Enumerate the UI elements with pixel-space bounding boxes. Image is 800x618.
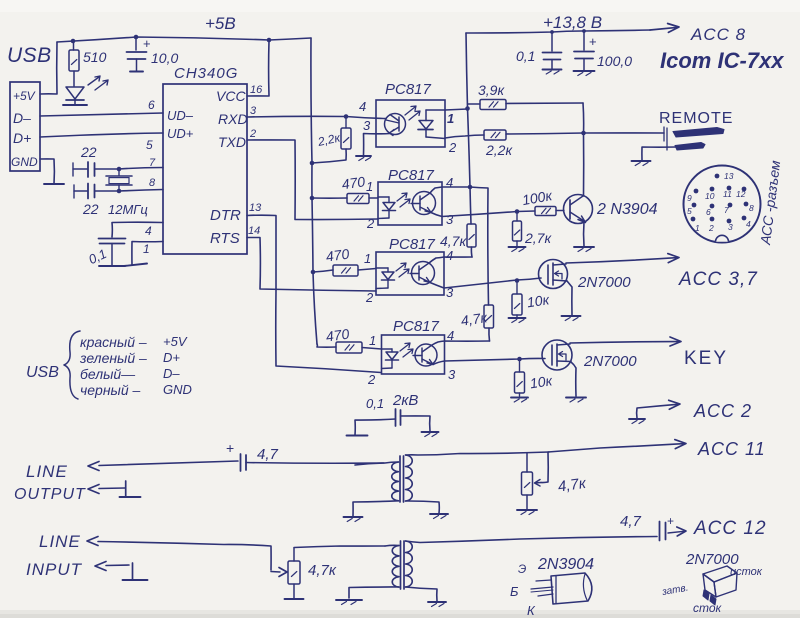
transformer T2 primary [392, 546, 399, 588]
svg-text:+13,8 В: +13,8 В [543, 13, 602, 32]
remote plug contacts [663, 127, 665, 141]
node base divider [515, 209, 520, 214]
svg-text:3: 3 [448, 367, 456, 382]
svg-text:UD–: UD– [167, 108, 194, 123]
MOSFET Q3 body [542, 340, 572, 370]
resistor 10k (U5) [519, 359, 521, 372]
node rail 470-3 [311, 270, 316, 275]
svg-text:исток: исток [730, 566, 763, 578]
svg-text:RTS: RTS [210, 230, 240, 247]
Q1 base bar [569, 200, 571, 219]
svg-text:белый—: белый— [80, 366, 136, 382]
svg-text:GND: GND [11, 155, 38, 169]
capacitor 4,7 ACC12 [659, 522, 661, 541]
U3 phototransistor [413, 192, 436, 215]
svg-text:3: 3 [446, 212, 454, 227]
node rail 470-2 [310, 196, 315, 201]
Q1 emitter stroke [570, 212, 586, 223]
node junction [134, 35, 139, 40]
svg-text:PC817: PC817 [385, 81, 432, 98]
svg-text:510: 510 [83, 49, 107, 65]
node crystal bottom [117, 189, 122, 194]
svg-text:3,9к: 3,9к [478, 82, 505, 98]
svg-text:сток: сток [693, 601, 723, 615]
wire 13V rail down [466, 33, 470, 187]
svg-text:0,1: 0,1 [366, 396, 384, 411]
svg-text:+5B: +5B [205, 14, 236, 33]
svg-text:черный –: черный – [80, 382, 141, 398]
node 13V r3,9k [465, 106, 470, 111]
ground T2 primary [336, 599, 362, 601]
ground for LED [63, 104, 87, 106]
ground T1 secondary [430, 513, 448, 515]
Q3 channel bar [556, 344, 558, 366]
svg-text:12: 12 [736, 189, 746, 199]
svg-text:11: 11 [723, 189, 732, 199]
2N3904 lead K [538, 594, 553, 596]
Q3 arrow [559, 352, 567, 361]
svg-text:зеленый –: зеленый – [79, 350, 147, 366]
resistor 4,7k (U4 pull) [470, 187, 471, 224]
svg-text:GND: GND [163, 382, 192, 397]
ground 10k (U4) [509, 317, 526, 319]
U3 pin3 wire [431, 212, 517, 217]
optocoupler U5 body [382, 335, 445, 374]
svg-text:1: 1 [447, 111, 454, 126]
U4 phototransistor [412, 262, 435, 285]
U2 LED [425, 110, 427, 121]
svg-text:4: 4 [746, 219, 751, 229]
wire +5V rail vertical [311, 38, 317, 344]
svg-text:INPUT: INPUT [26, 560, 83, 579]
svg-text:2,2к: 2,2к [485, 142, 513, 158]
wire down to remote node [582, 103, 585, 133]
resistor 100k [517, 210, 535, 213]
ground Q3 [566, 397, 586, 399]
capacitor 0,1 (13V) [551, 32, 553, 51]
wire ACC2 [637, 404, 679, 418]
wire D- to pin6 [40, 113, 163, 116]
capacitor 22p upper [72, 163, 74, 176]
ground remote [632, 160, 651, 162]
ground ACC2 [629, 418, 645, 420]
U4 pin3 wire [430, 278, 541, 288]
svg-text:4,7: 4,7 [257, 446, 279, 463]
transformer T1 secondary [406, 455, 413, 501]
svg-text:10: 10 [705, 191, 715, 201]
capacitor 0,1 2kV [395, 409, 397, 426]
svg-text:6: 6 [148, 98, 155, 112]
optocoupler U2 body [376, 100, 445, 147]
svg-text:3: 3 [363, 118, 371, 133]
wire cap to T1 [246, 462, 384, 465]
svg-text:+5V: +5V [13, 89, 36, 103]
resistor 470 (U5) [317, 344, 336, 347]
arrow ACC 3,7 [668, 254, 679, 263]
node 13,8 cap1 [550, 30, 554, 34]
ground 10k (U5) [511, 397, 528, 399]
Q3 source stroke [557, 360, 571, 363]
remote sleeve wire [642, 147, 676, 160]
svg-text:12МГц: 12МГц [108, 202, 148, 217]
svg-text:5: 5 [687, 206, 692, 216]
wire U2pin1 to rail [445, 109, 468, 110]
Q 2N7000 package [703, 566, 737, 582]
svg-text:ACC 3,7: ACC 3,7 [678, 269, 758, 290]
transformer T1 primary [392, 462, 399, 501]
remote plug tip [673, 128, 724, 138]
svg-text:1: 1 [695, 223, 700, 233]
svg-text:4: 4 [359, 99, 366, 114]
svg-text:1: 1 [366, 179, 373, 194]
svg-text:1: 1 [369, 333, 376, 348]
U5 phototransistor [415, 344, 437, 366]
LED arrows [88, 76, 100, 85]
U3 LED [378, 196, 389, 198]
USB connector J1 [10, 82, 40, 171]
Q2 drain wire [566, 258, 678, 263]
svg-text:D+: D+ [163, 350, 180, 365]
node 13V U3pin4 [468, 185, 473, 190]
svg-text:ACC 2: ACC 2 [693, 401, 752, 421]
svg-text:USB: USB [26, 364, 59, 381]
svg-text:13: 13 [249, 202, 262, 214]
legend brace [64, 331, 80, 399]
svg-text:10к: 10к [529, 372, 555, 391]
transistor Q1 body [564, 195, 593, 224]
svg-text:1: 1 [364, 251, 371, 266]
wire RXD [247, 116, 386, 118]
svg-text:TXD: TXD [218, 134, 246, 150]
node junction [71, 39, 76, 44]
2N3904 lead E [536, 580, 551, 581]
svg-text:16: 16 [250, 84, 263, 96]
svg-text:5: 5 [146, 138, 153, 152]
wire D+ to pin5 [40, 133, 163, 137]
svg-text:DTR: DTR [210, 207, 241, 224]
wire pin1 [132, 242, 163, 266]
U4 pin4 wire [429, 257, 472, 263]
arrow LINE in [87, 537, 98, 546]
wire pot to T2 [294, 546, 385, 548]
svg-text:10к: 10к [526, 291, 552, 310]
resistor 10k (U4) [516, 281, 518, 294]
resistor 2,7k [516, 212, 518, 222]
U2 pin2 wire and resistor 2,2k [445, 135, 484, 138]
svg-text:D–: D– [13, 110, 31, 126]
potentiometer 4,7k input [288, 561, 300, 584]
svg-text:6: 6 [706, 207, 711, 217]
wire to remote plug [584, 132, 665, 134]
wire GND [40, 159, 54, 184]
remote plug sleeve [675, 143, 705, 151]
svg-text:2,7к: 2,7к [524, 230, 552, 246]
transformer T2 secondary [406, 541, 413, 587]
svg-text:2N7000: 2N7000 [577, 274, 631, 291]
wire to pin7 [119, 168, 163, 170]
svg-text:2N7000: 2N7000 [583, 353, 637, 370]
resistor 3,9k [468, 103, 481, 105]
svg-text:PC817: PC817 [389, 236, 436, 253]
ground T2 secondary [428, 601, 446, 603]
ground Q1 [574, 246, 594, 248]
svg-text:8: 8 [149, 177, 156, 189]
arrow INPUT [95, 562, 106, 571]
svg-text:REMOTE: REMOTE [659, 110, 733, 127]
resistor 4,7k (U5 pull) [470, 187, 489, 305]
Q2 gate bar [547, 265, 549, 284]
potentiometer 4,7k [522, 472, 533, 495]
wire RTS [247, 238, 376, 292]
Q1 emitter wire [583, 222, 585, 246]
svg-text:3: 3 [728, 222, 733, 232]
svg-text:+: + [667, 514, 674, 528]
ground for USB GND [44, 183, 64, 185]
MOSFET Q2 body [539, 260, 568, 289]
capacitor 22p lower [73, 185, 75, 198]
svg-text:0,1: 0,1 [516, 48, 535, 64]
svg-text:RXD: RXD [218, 111, 248, 127]
svg-text:3: 3 [250, 105, 257, 117]
wire DTR [247, 215, 381, 372]
capacitor 4,7 out [240, 454, 242, 471]
ground cap 0,1 [543, 69, 562, 71]
node gate1 [515, 278, 520, 283]
Q2 drain stroke [553, 264, 566, 265]
capacitor 0,1 [99, 238, 126, 240]
svg-text:2: 2 [708, 223, 714, 233]
svg-text:10,0: 10,0 [151, 50, 178, 66]
svg-text:2кВ: 2кВ [392, 392, 418, 409]
arrow ACC2 [669, 400, 680, 409]
LED D1 [66, 87, 84, 99]
Q1 collector stroke [570, 196, 583, 205]
ground pot input [285, 598, 304, 600]
node rail RXD pullup [310, 161, 315, 166]
U5 pin4 wire [432, 341, 490, 345]
svg-text:D–: D– [163, 366, 180, 381]
Q3 drain wire [570, 342, 680, 343]
ground for 0,1 [99, 265, 125, 267]
svg-text:4,7: 4,7 [620, 513, 642, 530]
svg-text:+: + [226, 440, 234, 456]
Q3 gate bar [551, 345, 553, 365]
wire pot tap stub [526, 453, 528, 472]
arrow ACC11 [675, 440, 686, 449]
svg-text:2: 2 [366, 216, 375, 231]
svg-text:CH340G: CH340G [174, 65, 238, 82]
wire to pin8 [119, 190, 163, 192]
Q2 arrow [555, 271, 563, 279]
2N3904 lead B [531, 587, 553, 589]
svg-text:2N3904: 2N3904 [537, 556, 594, 573]
svg-text:+: + [589, 34, 597, 49]
svg-text:9: 9 [687, 193, 692, 203]
node 13,8 cap2 [582, 29, 586, 33]
svg-text:8: 8 [749, 203, 754, 213]
optocoupler U3 body [378, 182, 442, 225]
wire +13,8 bus [466, 30, 650, 33]
svg-text:470: 470 [325, 325, 351, 344]
arrow into pot in [271, 571, 280, 574]
transformer T2 core [400, 541, 402, 589]
jack sleeve out [125, 481, 127, 497]
arrow ACC12 [668, 531, 685, 533]
svg-text:470: 470 [325, 245, 351, 264]
svg-text:VCC: VCC [216, 88, 246, 104]
arrow OUTPUT [88, 485, 99, 494]
svg-text:Б: Б [510, 584, 519, 599]
svg-text:22: 22 [82, 201, 99, 217]
svg-text:2: 2 [367, 372, 376, 387]
svg-text:D+: D+ [13, 130, 31, 146]
resistor 470 (U3) [312, 197, 347, 199]
resistor 510 [73, 41, 75, 50]
svg-text:+: + [143, 36, 151, 51]
svg-text:22: 22 [80, 144, 97, 160]
ground 2kV right [422, 431, 439, 433]
U4 emission arrows [396, 263, 406, 271]
ground T1 primary [344, 516, 363, 518]
Q2 source stroke [553, 280, 567, 281]
node remote [581, 131, 586, 136]
svg-text:100,0: 100,0 [597, 53, 632, 69]
U5 LED [382, 348, 393, 350]
DIN connector pins 1-13 [715, 174, 720, 179]
svg-text:14: 14 [248, 225, 260, 237]
jack sleeve in [132, 563, 134, 580]
svg-text:4: 4 [446, 248, 453, 263]
svg-text:13: 13 [724, 171, 734, 181]
ground Q2 [562, 315, 581, 317]
node RXD pullup [344, 114, 349, 119]
svg-text:+5V: +5V [163, 334, 188, 349]
ground pot [517, 509, 537, 511]
ground cap 100,0 [574, 70, 595, 72]
U5 emission arrows [400, 343, 410, 351]
svg-text:2: 2 [448, 140, 457, 155]
transformer T1 core [399, 456, 401, 502]
optocoupler U4 body [376, 252, 444, 295]
svg-text:Э: Э [518, 562, 526, 576]
U2 pin3 wire [364, 134, 391, 156]
Q1 collector wire [583, 133, 585, 196]
node crystal top [117, 167, 122, 172]
Q3 drain stroke [557, 344, 570, 345]
node junction [267, 38, 272, 43]
wire VCC pin16 [247, 41, 269, 96]
U2 emission arrows [405, 106, 416, 115]
resistor 2,2k pullup [345, 117, 347, 129]
ground 2kV left [347, 435, 368, 437]
svg-text:ACC 12: ACC 12 [693, 518, 767, 539]
svg-text:4,7к: 4,7к [440, 233, 467, 249]
svg-text:PC817: PC817 [393, 318, 440, 335]
arrow to ACC8 [650, 27, 678, 30]
svg-text:1: 1 [143, 242, 150, 256]
resistor 470 (U4) [313, 270, 333, 272]
U5 pin3 wire [433, 358, 545, 364]
wire ACC11 [548, 444, 685, 452]
U3 pin4 wire [430, 187, 470, 193]
pot wiper arrow [541, 453, 548, 483]
U3 emission arrows [397, 193, 407, 201]
arrow LINE out [88, 462, 99, 471]
U4 LED [376, 267, 388, 269]
wire +5V to rail [40, 42, 57, 94]
node gate2 [517, 357, 522, 362]
U2 anode wire [426, 109, 445, 111]
capacitor 10,0 [135, 37, 137, 50]
svg-text:470: 470 [341, 173, 367, 192]
svg-text:ACC 11: ACC 11 [697, 439, 766, 459]
svg-text:7: 7 [724, 205, 729, 215]
svg-text:UD+: UD+ [167, 126, 194, 141]
svg-text:2: 2 [365, 290, 374, 305]
pot ground wire [526, 495, 528, 509]
svg-text:LINE: LINE [26, 462, 68, 481]
svg-text:К: К [527, 603, 536, 618]
svg-text:LINE: LINE [39, 532, 81, 551]
svg-text:2: 2 [249, 128, 256, 140]
U2 phototransistor [385, 114, 406, 135]
IC U1 CH340G body [163, 84, 247, 254]
DIN connector shell [684, 166, 761, 243]
svg-text:OUTPUT: OUTPUT [14, 486, 86, 503]
svg-text:KEY: KEY [684, 348, 728, 369]
svg-text:USB: USB [7, 44, 52, 67]
svg-text:4: 4 [145, 224, 152, 238]
wire +5V top rail [57, 37, 311, 42]
svg-text:ACC 8: ACC 8 [690, 25, 746, 44]
svg-text:Icom IC-7xx: Icom IC-7xx [660, 48, 784, 73]
capacitor 100,0 [583, 31, 585, 50]
arrow KEY [670, 337, 681, 346]
wire TXD [247, 140, 378, 220]
Q3 source wire [571, 362, 576, 396]
Q2 channel bar [552, 263, 554, 285]
svg-text:красный –: красный – [80, 334, 147, 350]
svg-text:4,7к: 4,7к [308, 562, 337, 579]
Q 2N3904 package [551, 573, 592, 604]
ground pin1 [124, 264, 147, 267]
ground 2,7k [509, 246, 526, 248]
ground U2 pin3 [356, 155, 371, 157]
wire pin4 [112, 222, 163, 237]
Q2 source wire [567, 281, 572, 315]
crystal Y1 12MHz [118, 169, 120, 176]
svg-text:2 N3904: 2 N3904 [596, 201, 658, 218]
